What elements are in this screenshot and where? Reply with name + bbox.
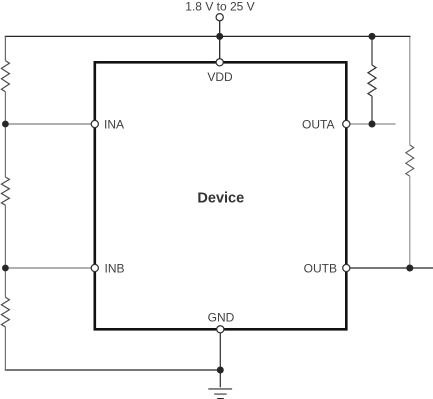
svg-text:VDD: VDD [207, 70, 233, 84]
svg-text:GND: GND [208, 311, 235, 325]
svg-text:INA: INA [104, 118, 124, 132]
svg-text:OUTA: OUTA [302, 118, 334, 132]
svg-text:Device: Device [197, 190, 244, 206]
svg-text:INB: INB [105, 262, 125, 276]
svg-text:OUTB: OUTB [304, 262, 337, 276]
svg-text:1.8 V to 25 V: 1.8 V to 25 V [185, 0, 254, 13]
